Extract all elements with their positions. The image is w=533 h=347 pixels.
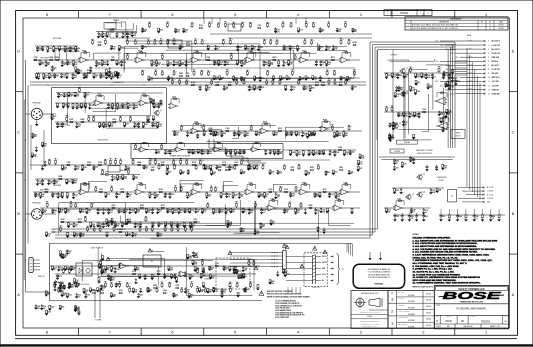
ground (224, 153, 228, 155)
capacitor C93 (240, 227, 242, 228)
resistor R22 (179, 59, 181, 62)
transistor Q5 (418, 175, 422, 179)
capacitor C63 (164, 192, 166, 193)
resistor R163 (121, 191, 124, 193)
resistor R497 (73, 231, 75, 233)
diode D21 (210, 129, 212, 132)
resistor R191 (75, 207, 77, 208)
svg-text:+: + (323, 129, 324, 131)
ground (282, 65, 286, 67)
svg-text:C172: C172 (216, 47, 220, 49)
svg-text:R. MORIN: R. MORIN (408, 295, 414, 297)
capacitor C118 (423, 213, 425, 216)
voltage limiter dashed box (216, 258, 250, 289)
resistor R399 (270, 44, 272, 45)
capacitor C26 (259, 85, 261, 86)
ground (206, 48, 210, 50)
resistor R49 (192, 84, 195, 86)
ground (342, 135, 346, 137)
ground (290, 89, 294, 91)
svg-text:+28: +28 (291, 202, 293, 204)
capacitor C99 (425, 73, 427, 75)
ground (392, 125, 396, 127)
long wires y34 y38 (210, 33, 372, 35)
ground (58, 211, 62, 213)
svg-text:REFER TO CHART ON SHT 2.: REFER TO CHART ON SHT 2. (413, 285, 435, 288)
svg-text:14: 14 (488, 93, 490, 95)
ground (107, 75, 111, 77)
ground (76, 73, 80, 75)
feedback network (342, 53, 351, 58)
capacitor C146 (244, 287, 246, 290)
title block outline (434, 286, 508, 329)
ground (104, 269, 108, 271)
capacitor C151 (319, 27, 321, 30)
svg-text:R246: R246 (137, 161, 141, 164)
capacitor C129 (66, 250, 68, 251)
svg-text:+: + (142, 103, 143, 105)
svg-text:R265: R265 (140, 205, 144, 207)
svg-text:B+: B+ (149, 288, 151, 290)
ground (164, 225, 168, 227)
ground (60, 76, 64, 78)
ground (40, 308, 44, 310)
svg-text:DETECT: DETECT (439, 180, 445, 182)
ground (213, 64, 217, 66)
ground (199, 277, 203, 279)
wire (222, 186, 224, 192)
ground (389, 140, 393, 142)
projection symbol cone (369, 298, 380, 306)
ground (96, 212, 100, 214)
bottom faint rule line (15, 338, 517, 340)
svg-text:1: 1 (391, 321, 394, 326)
ground (107, 278, 111, 280)
svg-text:+28: +28 (268, 22, 270, 24)
svg-text:+15: +15 (297, 187, 299, 189)
resistor R52 (216, 84, 219, 86)
svg-text:1.0: 1.0 (48, 235, 50, 237)
ground (179, 173, 183, 175)
ground (196, 137, 200, 139)
resistor R130 (132, 164, 134, 165)
svg-text:-15: -15 (156, 39, 158, 41)
ground (396, 77, 400, 79)
pin row TURN ON (450, 89, 482, 91)
resistor R14 (101, 59, 103, 62)
resistor R469 (246, 74, 248, 76)
svg-text:+: + (248, 60, 249, 62)
resistor R327 (59, 304, 61, 306)
ground (435, 169, 439, 171)
resistor R104 (225, 149, 227, 151)
resistor R508 (164, 231, 166, 232)
resistor R113 (323, 149, 325, 151)
capacitor C91 (323, 228, 325, 230)
ground (51, 70, 55, 72)
svg-text:.01: .01 (73, 269, 75, 271)
svg-text:.1: .1 (54, 118, 55, 120)
ground (229, 153, 233, 155)
svg-text:B: B (17, 212, 20, 216)
diode D13 (76, 122, 78, 123)
capacitor C2 (126, 32, 128, 34)
ground (346, 79, 350, 81)
svg-text:BOSE: BOSE (443, 290, 502, 301)
ground (107, 225, 111, 227)
ground (99, 77, 103, 79)
ground (191, 263, 195, 265)
ground (156, 212, 160, 214)
wire (207, 140, 329, 143)
resistor R446 (269, 169, 271, 171)
ground (282, 49, 286, 51)
svg-text:C209: C209 (259, 47, 263, 49)
diode D42 (396, 86, 398, 87)
resistor R228 (183, 221, 185, 223)
resistor R150 (117, 174, 119, 177)
ground (210, 174, 214, 176)
ground (159, 103, 163, 105)
svg-text:10K: 10K (246, 135, 250, 137)
ground (52, 50, 56, 52)
ground (414, 84, 418, 86)
ground (282, 272, 286, 274)
wire (272, 184, 274, 192)
ground (170, 277, 174, 279)
diode D54 (114, 267, 116, 268)
ground (35, 77, 39, 79)
ground (151, 125, 155, 127)
svg-text:+15: +15 (314, 23, 316, 25)
wire bus (52, 287, 258, 289)
capacitor C156 (237, 45, 239, 47)
resistor R378 (344, 26, 346, 28)
resistor R111 (308, 149, 310, 152)
wire (125, 41, 192, 72)
resistor R308 (49, 304, 51, 307)
ground (57, 96, 61, 98)
ground (445, 112, 449, 114)
resistor R339 (83, 287, 85, 290)
diode D39 (254, 229, 256, 230)
svg-text:6: 6 (171, 331, 173, 335)
ground (84, 77, 88, 79)
resistor R148 (102, 173, 104, 174)
svg-text:-15: -15 (111, 159, 113, 161)
resistor R366 (224, 26, 226, 28)
svg-text:C269: C269 (234, 162, 238, 164)
ground (61, 257, 65, 259)
svg-text:10K: 10K (354, 31, 358, 33)
resistor R351 (176, 287, 179, 289)
projection symbol circle (356, 298, 364, 306)
ground (89, 226, 93, 228)
resistor R28 (268, 60, 270, 61)
resistor R315 (129, 291, 131, 293)
diode D60 (35, 304, 37, 307)
capacitor C18 (72, 73, 74, 75)
svg-text:2.2K: 2.2K (215, 291, 219, 293)
diode D66 (68, 283, 70, 285)
ground (235, 272, 239, 274)
ground (66, 296, 70, 298)
svg-text:R255: R255 (43, 210, 47, 212)
capacitor C68 (314, 192, 316, 193)
svg-text:C109: C109 (90, 105, 94, 107)
ground (73, 282, 77, 284)
resistor R99 (135, 148, 137, 149)
capacitor C163 (290, 131, 292, 132)
resistor R411 (221, 130, 223, 133)
ground (253, 89, 257, 91)
ground (53, 77, 57, 79)
ground (130, 35, 134, 37)
svg-text:-15: -15 (238, 282, 240, 284)
ground (89, 70, 93, 72)
resistor R304 (59, 285, 61, 288)
P-CODE drawing note rounded box (353, 264, 404, 288)
svg-text:C270: C270 (74, 224, 78, 226)
resistor R8 (75, 45, 77, 48)
svg-text:5: 5 (234, 331, 236, 335)
ground (240, 65, 244, 67)
svg-text:+: + (194, 131, 195, 133)
ground (257, 196, 261, 198)
svg-text:3: 3 (391, 297, 394, 302)
wire (93, 94, 116, 112)
wire bus (384, 207, 430, 209)
svg-text:P4-5: P4-5 (456, 57, 459, 59)
resistor R451 (310, 169, 313, 171)
resistor R398 (263, 44, 265, 45)
resistor R84 (93, 121, 95, 122)
diode D83 (438, 110, 440, 113)
diode D81 (299, 75, 301, 78)
svg-text:GND: GND (487, 202, 490, 204)
resistor R153 (59, 178, 62, 180)
resistor R85 (99, 121, 101, 124)
svg-text:C252: C252 (111, 57, 115, 59)
resistor R217 (61, 221, 64, 223)
resistor R355 (213, 287, 215, 289)
svg-text:P4-7: P4-7 (441, 65, 444, 67)
capacitor C106 (402, 120, 404, 122)
resistor R344 (119, 286, 121, 288)
ground (69, 50, 73, 52)
diode D29 (275, 192, 277, 194)
diode D28 (48, 179, 50, 180)
svg-text:6: 6 (488, 61, 489, 63)
resistor R9 (34, 59, 37, 61)
svg-text:C107: C107 (157, 151, 161, 153)
svg-text:R110: R110 (132, 271, 136, 273)
ground (188, 212, 192, 214)
ground (71, 107, 75, 109)
resistor R452 (317, 169, 319, 170)
resistor R101 (188, 148, 190, 150)
resistor R503 (119, 231, 122, 233)
op-amp U19 (268, 205, 275, 211)
wire (87, 182, 89, 193)
resistor R296 (176, 276, 178, 279)
resistor R91 (129, 121, 131, 123)
resistor R255 (392, 124, 394, 126)
resistor R319 (181, 292, 183, 293)
ground (128, 212, 132, 214)
ground (294, 213, 298, 215)
ground (177, 212, 181, 214)
ground (50, 118, 54, 120)
top document number strip (384, 9, 432, 15)
resistor R441 (234, 169, 236, 170)
svg-text:TITLE: TITLE (436, 305, 440, 307)
resistor R354 (207, 287, 209, 289)
capacitor C108 (410, 156, 412, 157)
capacitor C98 (397, 73, 399, 74)
resistor R391 (195, 43, 197, 45)
ground (410, 212, 414, 214)
svg-text:10K: 10K (157, 64, 161, 66)
ground (174, 31, 178, 33)
diode D5 (107, 60, 109, 61)
ground (238, 153, 242, 155)
svg-text:B+: B+ (264, 164, 266, 166)
incoming wire bundle (230, 252, 283, 254)
capacitor C61 (116, 192, 118, 194)
ground (325, 211, 329, 213)
diode D31 (42, 208, 44, 209)
svg-text:.1: .1 (56, 77, 57, 79)
wire bus (33, 191, 360, 193)
svg-text:33K: 33K (47, 64, 51, 66)
resistor R6 (58, 45, 60, 47)
resistor R51 (211, 84, 213, 85)
ground (358, 157, 362, 159)
resistor R478 (326, 74, 328, 76)
diode D68 (140, 287, 142, 290)
capacitor C178 (448, 85, 450, 86)
capacitor C78 (218, 208, 220, 209)
ground (151, 225, 155, 227)
capacitor C85 (115, 222, 117, 223)
ground (399, 192, 403, 194)
svg-text:B+: B+ (232, 54, 234, 56)
diode D38 (73, 222, 75, 223)
ground (328, 154, 332, 156)
capacitor C16 (320, 60, 322, 62)
capacitor C120 (457, 213, 459, 216)
pin row GND (462, 201, 481, 203)
ground (182, 226, 186, 228)
ground (150, 64, 154, 66)
ground (408, 219, 412, 221)
ground (393, 163, 397, 165)
ground (106, 64, 110, 66)
svg-text:K1: K1 (151, 261, 153, 263)
resistor R74 (80, 102, 82, 105)
svg-text:INTERNAL: INTERNAL (374, 283, 384, 286)
ground (60, 65, 64, 67)
svg-text:DATE: DATE (499, 21, 502, 24)
resistor R423 (336, 130, 338, 133)
ground (302, 154, 306, 156)
zigzag connector J4 (312, 255, 314, 284)
svg-text:+15: +15 (182, 186, 184, 188)
level detect enclosure box (52, 88, 167, 144)
diode D16 (155, 149, 157, 152)
resistor R93 (147, 121, 150, 123)
ground (226, 224, 230, 226)
svg-text:R163: R163 (199, 25, 203, 27)
ground (259, 227, 263, 229)
ic block B (228, 24, 241, 31)
wire (166, 50, 294, 69)
resistor R418 (279, 130, 282, 132)
ground (187, 152, 191, 154)
svg-text:10K: 10K (345, 135, 349, 137)
third angle projection block (351, 291, 388, 329)
ground (413, 115, 417, 117)
ground (214, 134, 218, 136)
svg-text:+: + (97, 103, 98, 105)
resistor R434 (174, 169, 176, 170)
safety controlled banner (436, 287, 508, 291)
ground (232, 270, 236, 272)
title row (434, 303, 508, 305)
zone tick left (16, 91, 23, 93)
resistor R222 (97, 221, 99, 223)
svg-text:C: C (512, 131, 515, 135)
resistor R219 (78, 221, 81, 223)
svg-text:.1: .1 (54, 212, 55, 214)
svg-text:+: + (178, 149, 179, 151)
resistor R143 (223, 164, 226, 166)
svg-text:R267: R267 (336, 199, 340, 201)
svg-text:4: 4 (297, 13, 299, 17)
warning triangle symbol (106, 257, 110, 261)
resistor R81 (70, 121, 73, 123)
svg-text:R138: R138 (192, 162, 196, 164)
svg-text:C108: C108 (115, 269, 119, 271)
resistor R186 (126, 218, 128, 221)
resistor R502 (113, 230, 115, 232)
svg-text:R216: R216 (77, 124, 81, 126)
ground (105, 235, 109, 237)
svg-text:C175: C175 (185, 73, 189, 75)
mid horizontal wires (283, 149, 288, 151)
svg-text:C152: C152 (215, 82, 219, 84)
warning triangle symbol (259, 291, 264, 295)
resistor R109 (296, 149, 298, 152)
resistor R488 (440, 117, 442, 119)
svg-text:R216: R216 (112, 119, 116, 121)
resistor R425 (348, 130, 350, 131)
svg-text:+15: +15 (196, 39, 198, 41)
wire (106, 23, 121, 27)
ground (38, 64, 42, 66)
ground (67, 287, 71, 289)
op-amp U12 (252, 147, 258, 152)
ground (397, 115, 401, 117)
ground (247, 169, 251, 171)
zone tick top (140, 11, 142, 19)
ground (63, 50, 67, 52)
resistor R121 (62, 164, 64, 166)
svg-text:AMPLIFIER DC OFFSET: AMPLIFIER DC OFFSET (417, 149, 433, 152)
ground (239, 231, 243, 233)
svg-text:R179: R179 (120, 189, 124, 191)
